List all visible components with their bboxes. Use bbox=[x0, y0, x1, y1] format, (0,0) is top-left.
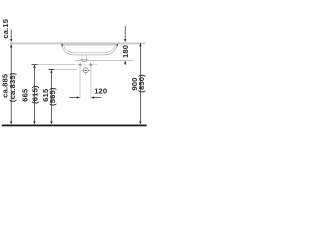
dimension D bottom up arrow bbox=[124, 61, 126, 64]
dimension 120 line right tail bbox=[94, 97, 101, 99]
extension line from left diamond down bbox=[79, 67, 81, 99]
svg-text:(565): (565) bbox=[48, 87, 57, 106]
basin outer bowl outline bbox=[62, 45, 117, 54]
dimension A floor arrow bbox=[10, 121, 12, 124]
outlet crosshair ticks bbox=[81, 67, 91, 76]
dimension line E x140.7 (900) bbox=[139, 43, 141, 123]
dimension B up arrow bbox=[33, 65, 35, 68]
reference line at tailpiece bottom level y60.3 bbox=[75, 59, 134, 61]
dimension line C x51.8 bbox=[50, 69, 52, 123]
basin rim right end tick bbox=[117, 44, 119, 46]
dimension D bottom stem bbox=[124, 63, 126, 65]
dimension B top tick bbox=[32, 64, 38, 66]
dimension line B x34.4 bbox=[33, 65, 35, 124]
dimension C up arrow bbox=[50, 70, 52, 73]
dimension 120 line left tail bbox=[69, 97, 77, 99]
extension line from right diamond down bbox=[90, 67, 92, 99]
svg-text:(615): (615) bbox=[30, 85, 39, 104]
dimension A down arrow at countertop bbox=[10, 39, 12, 42]
dimension B floor arrow bbox=[33, 121, 35, 124]
svg-text:(850): (850) bbox=[137, 74, 146, 93]
svg-text:180: 180 bbox=[121, 45, 130, 58]
dimension C floor arrow bbox=[50, 121, 52, 124]
basin inner bowl outline bbox=[64, 45, 116, 52]
dimension E top up arrow bbox=[139, 43, 141, 46]
dimension line D x125.2 upper stem (180) bbox=[124, 26, 126, 39]
basin rim left end tick bbox=[61, 44, 63, 46]
basin rim line bbox=[62, 45, 118, 47]
outlet center bar bbox=[84, 69, 87, 71]
dimension E floor arrow bbox=[139, 121, 141, 124]
svg-text:665: 665 bbox=[20, 88, 29, 102]
dimension line A x11.2 upper segment (ca.15) bbox=[10, 30, 12, 40]
centerline dash between diamonds bbox=[85, 64, 87, 66]
reference line at fixing holes level y64.8 bbox=[32, 64, 76, 66]
reference line at outlet level y69.4 bbox=[48, 68, 77, 70]
dimension C top tick bbox=[49, 68, 55, 70]
svg-text:120: 120 bbox=[94, 86, 107, 95]
countertop line bbox=[10, 42, 145, 44]
svg-text:(ca.835): (ca.835) bbox=[8, 72, 17, 102]
dimension A up arrow below countertop bbox=[10, 44, 12, 47]
tailpiece pipe bbox=[82, 55, 87, 60]
dimension line A lower segment to floor bbox=[10, 44, 12, 123]
dimension 120 right arrow bbox=[91, 96, 94, 98]
svg-text:ca.15: ca.15 bbox=[1, 18, 10, 38]
tailpiece flange nut bbox=[81, 60, 88, 62]
left fixing hole diamond bbox=[77, 62, 83, 68]
centerline dash right of right diamond bbox=[94, 64, 97, 66]
waste outlet circle bbox=[83, 68, 88, 73]
right fixing hole diamond bbox=[88, 62, 94, 68]
dimension D down arrow at countertop bbox=[124, 39, 126, 42]
dimension 120 left arrow bbox=[77, 96, 80, 98]
floor line bbox=[2, 125, 147, 127]
